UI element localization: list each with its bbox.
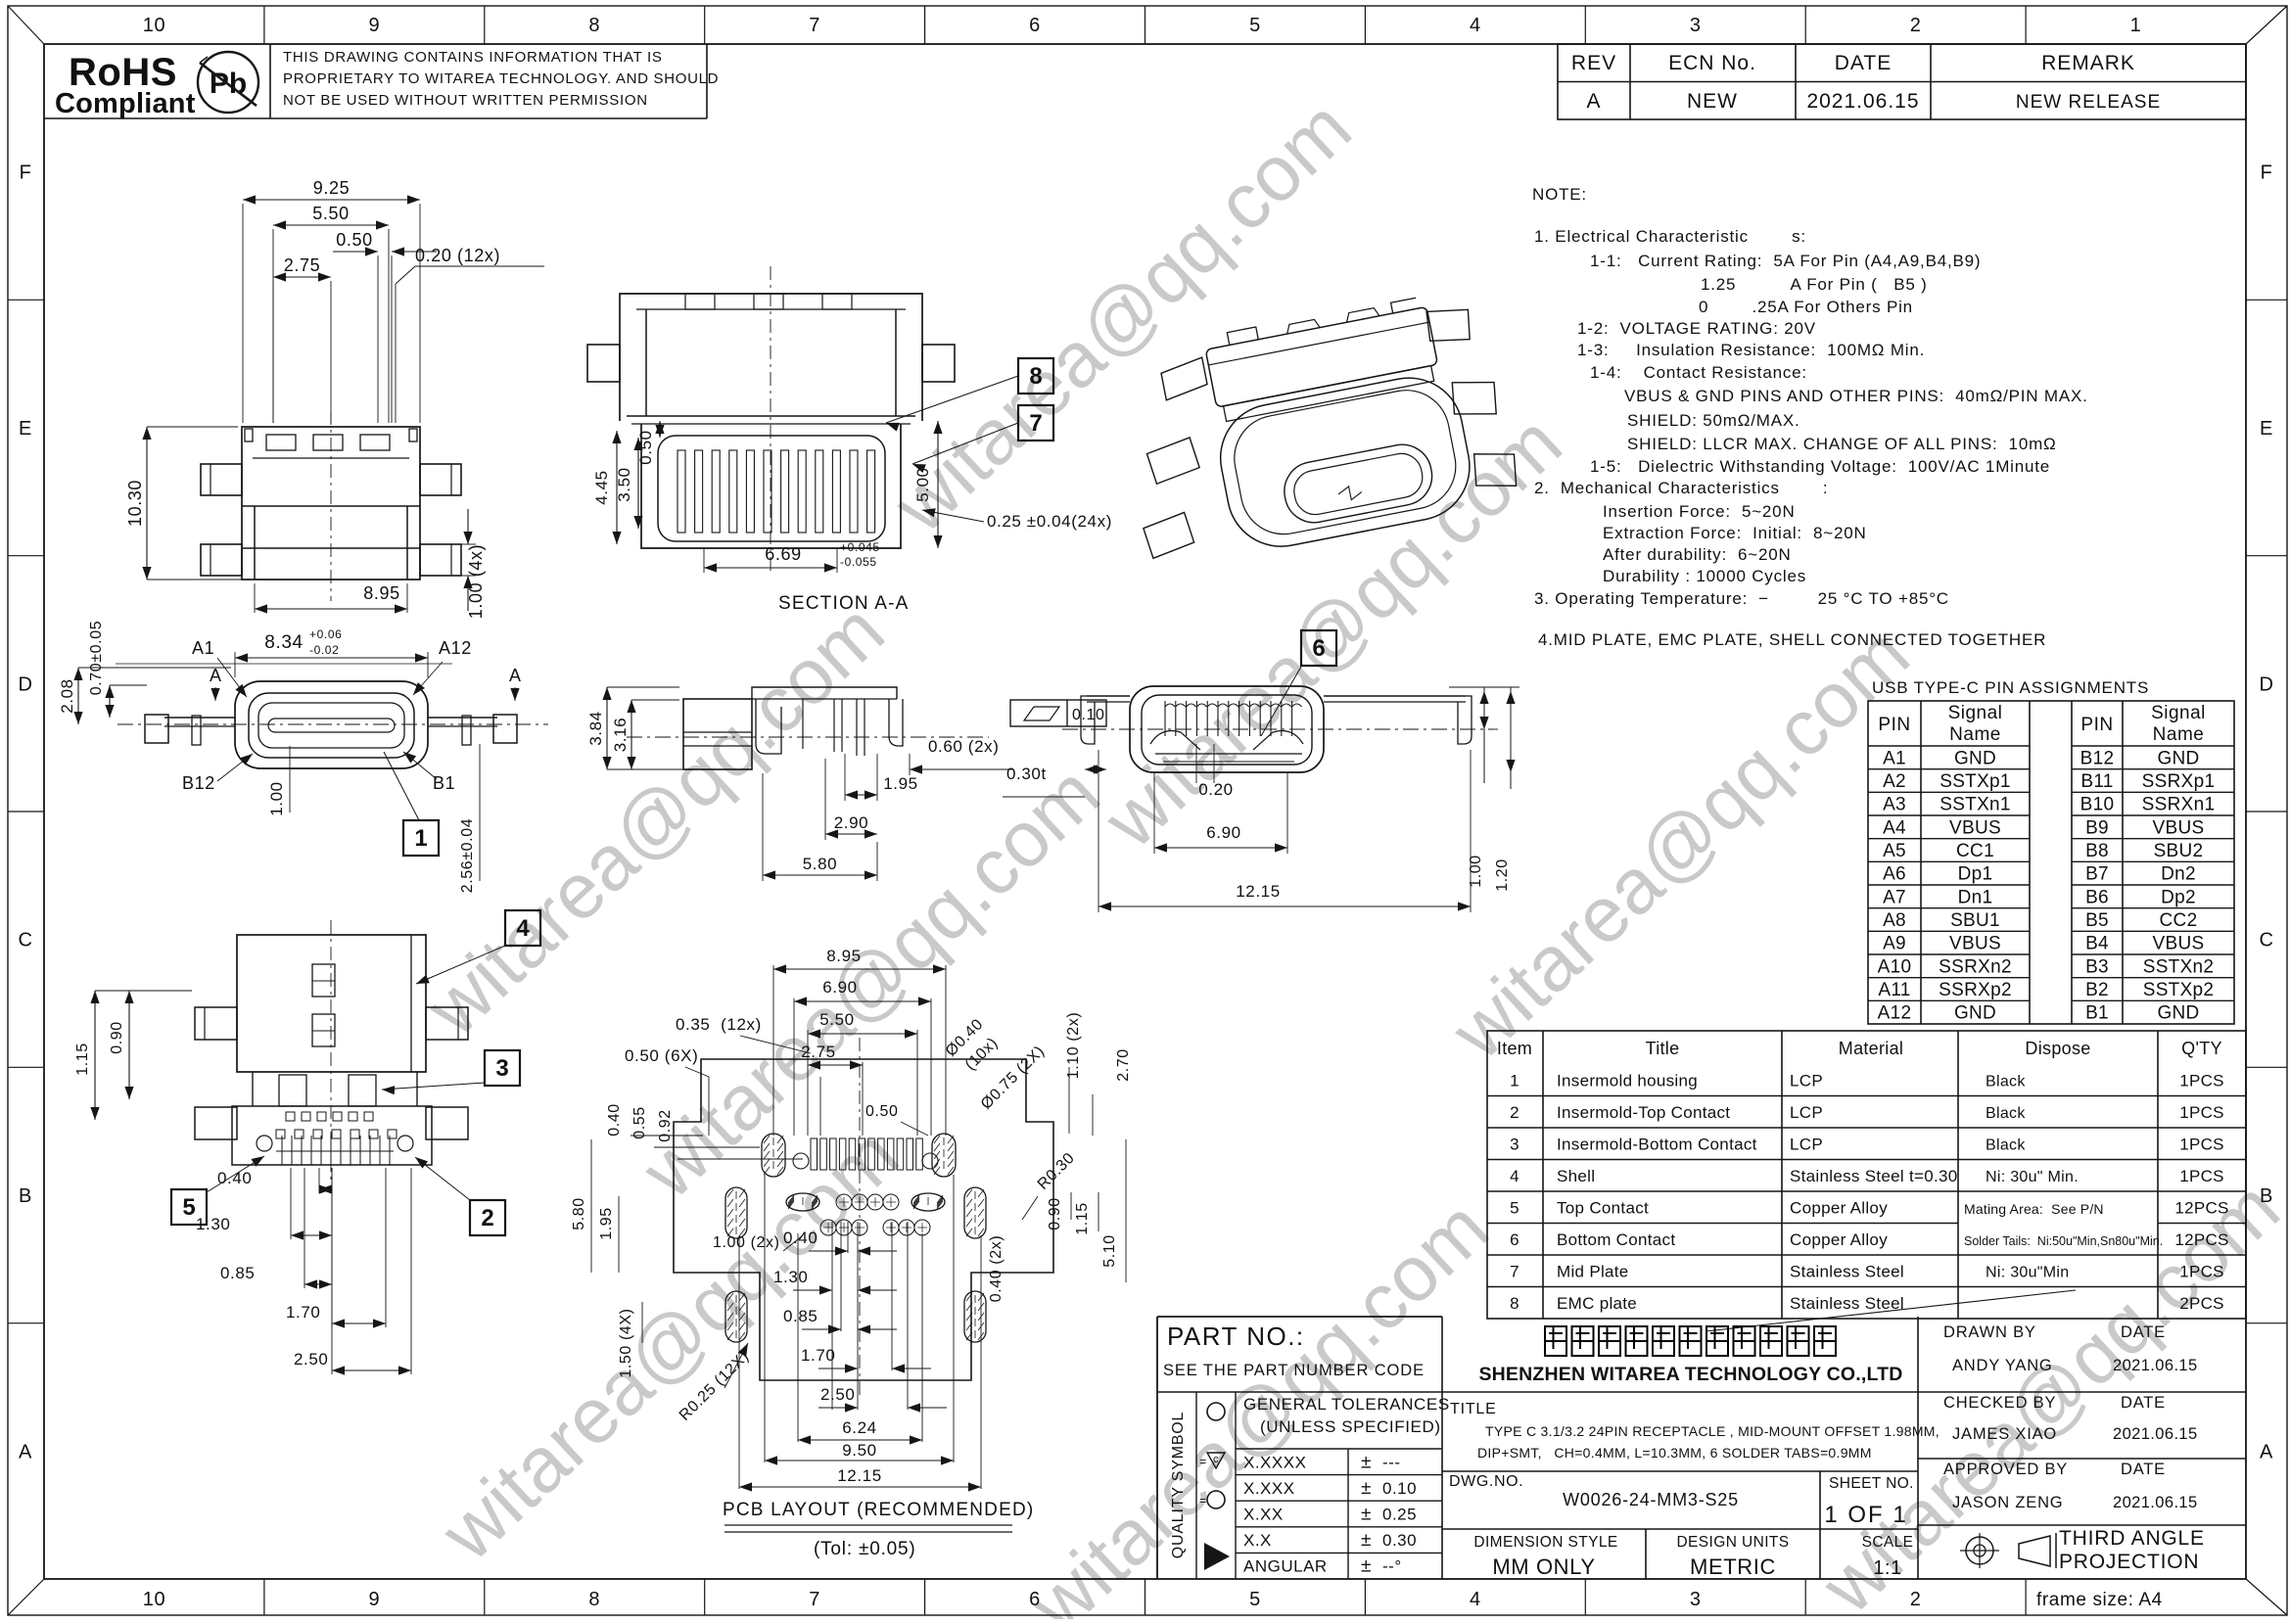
svg-text:1:1: 1:1	[1873, 1557, 1902, 1579]
svg-text:DIMENSION STYLE: DIMENSION STYLE	[1473, 1534, 1617, 1551]
pcb large oval pads	[762, 1134, 785, 1177]
svg-text:A: A	[509, 666, 522, 685]
svg-text:ECN No.: ECN No.	[1668, 52, 1756, 74]
dwg no block	[1442, 1528, 1918, 1530]
svg-text:2: 2	[481, 1205, 493, 1231]
side dim 2.90	[824, 759, 826, 840]
svg-text:0.10: 0.10	[1072, 707, 1105, 723]
svg-text:B5: B5	[2085, 910, 2109, 931]
svg-text:A5: A5	[1883, 841, 1906, 861]
svg-text:1.70: 1.70	[286, 1303, 321, 1322]
bottom view hooks	[312, 964, 335, 997]
front dim 2.56	[479, 744, 481, 881]
svg-text:4: 4	[1470, 15, 1481, 36]
svg-text:SSRXp2: SSRXp2	[1939, 980, 2012, 1000]
svg-text:SSTXp2: SSTXp2	[2143, 980, 2215, 1000]
svg-text:DATE: DATE	[1835, 52, 1892, 74]
svg-text:8.95: 8.95	[363, 583, 399, 603]
svg-text:1.70: 1.70	[801, 1346, 836, 1365]
svg-text:2. Mechanical Characteristics: 2. Mechanical Characteristics :	[1534, 479, 1828, 497]
svg-text:1.00 (2x): 1.00 (2x)	[713, 1234, 780, 1251]
svg-text:9: 9	[368, 15, 380, 36]
svg-text:D: D	[18, 673, 32, 695]
bottom small dims	[318, 1168, 320, 1193]
svg-text:1: 1	[2130, 15, 2142, 36]
svg-text:A9: A9	[1883, 934, 1906, 954]
front dim 0.70	[110, 684, 147, 686]
RoHS compliant logo block	[44, 117, 707, 119]
svg-text:B4: B4	[2085, 934, 2109, 954]
view: recommended PCB layout	[674, 1059, 1053, 1380]
svg-text:10.30: 10.30	[125, 480, 145, 527]
svg-text:0.70±0.05: 0.70±0.05	[88, 621, 105, 695]
svg-text:5: 5	[1510, 1198, 1519, 1217]
svg-text:B12: B12	[2080, 748, 2115, 768]
svg-text:REMARK: REMARK	[2041, 52, 2135, 74]
svg-text:1.20: 1.20	[1494, 858, 1511, 892]
svg-text:A: A	[1586, 90, 1601, 113]
svg-text:4.45: 4.45	[592, 470, 611, 505]
side dim 3.84	[607, 686, 679, 688]
svg-text:SBU1: SBU1	[1950, 910, 2000, 931]
pcb centerline	[859, 1038, 861, 1400]
svg-text:0.35 (12x): 0.35 (12x)	[676, 1015, 762, 1034]
svg-text:THIRD ANGLE: THIRD ANGLE	[2059, 1527, 2205, 1550]
svg-text:12.15: 12.15	[1236, 882, 1281, 901]
svg-text:A7: A7	[1883, 887, 1906, 907]
svg-text:F: F	[20, 162, 32, 184]
svg-text:1PCS: 1PCS	[2179, 1262, 2224, 1280]
svg-text:ANGULAR: ANGULAR	[1243, 1557, 1328, 1576]
back centerline	[1062, 728, 1498, 730]
svg-text:B3: B3	[2085, 956, 2109, 977]
svg-text:0.30: 0.30	[1382, 1531, 1417, 1550]
svg-text:Black: Black	[1986, 1105, 2026, 1122]
svg-text:After durability: 6~20N: After durability: 6~20N	[1603, 545, 1792, 564]
svg-text:GND: GND	[1954, 748, 1996, 768]
svg-text:8: 8	[1029, 363, 1042, 390]
svg-text:6.90: 6.90	[822, 978, 858, 997]
svg-text:1.50 (4X): 1.50 (4X)	[618, 1308, 634, 1377]
svg-text:0.25 ±0.04(24x): 0.25 ±0.04(24x)	[987, 512, 1112, 531]
svg-text:Insermold housing: Insermold housing	[1557, 1071, 1698, 1090]
svg-text:frame size: A4: frame size: A4	[2036, 1590, 2163, 1610]
svg-text:0.50: 0.50	[336, 230, 372, 250]
iso mid gap plate	[1229, 367, 1425, 405]
pcb smt pad row	[811, 1138, 818, 1170]
back dim 0.20	[1195, 744, 1197, 783]
svg-text:2021.06.15: 2021.06.15	[2113, 1425, 2198, 1443]
svg-text:=: =	[1199, 1494, 1207, 1508]
svg-text:3.84: 3.84	[586, 711, 605, 746]
svg-text:1: 1	[414, 825, 427, 852]
svg-text:6.90: 6.90	[1206, 823, 1241, 842]
svg-text:0.40: 0.40	[783, 1229, 818, 1247]
front dim 1.00 and leader	[289, 746, 291, 812]
svg-text:Name: Name	[2153, 724, 2205, 745]
svg-text:0.92: 0.92	[657, 1109, 674, 1142]
svg-text:B8: B8	[2085, 841, 2109, 861]
svg-text:4: 4	[1510, 1167, 1519, 1185]
svg-text:1.30: 1.30	[196, 1215, 231, 1233]
svg-text:6.69: 6.69	[765, 544, 801, 564]
svg-text:6: 6	[1312, 635, 1325, 662]
svg-text:2021.06.15: 2021.06.15	[2113, 1494, 2198, 1511]
svg-text:0.30t: 0.30t	[1006, 765, 1047, 783]
svg-text:1.15: 1.15	[74, 1043, 91, 1076]
svg-text:X.X: X.X	[1243, 1531, 1272, 1550]
svg-text:0.50: 0.50	[636, 430, 655, 465]
svg-text:Solder Tails: Ni:50u"Min,Sn80: Solder Tails: Ni:50u"Min,Sn80u"Min.	[1964, 1234, 2163, 1248]
view: section A-A	[620, 294, 922, 421]
svg-text:7: 7	[1029, 410, 1042, 437]
flatness tolerance callout	[1010, 700, 1106, 726]
svg-text:A12: A12	[439, 638, 472, 658]
svg-text:Stainless Steel: Stainless Steel	[1790, 1262, 1904, 1280]
svg-text:APPROVED BY: APPROVED BY	[1943, 1461, 2068, 1478]
svg-text:SECTION A-A: SECTION A-A	[778, 593, 910, 614]
svg-text:Dn2: Dn2	[2161, 864, 2196, 885]
svg-text:3: 3	[495, 1055, 508, 1082]
svg-text:ANDY YANG: ANDY YANG	[1952, 1357, 2053, 1374]
svg-text:Title: Title	[1646, 1039, 1680, 1058]
section lower shroud	[641, 424, 901, 548]
svg-text:0.85: 0.85	[783, 1307, 818, 1325]
Pb-free symbol	[198, 52, 258, 113]
svg-text:Stainless Steel: Stainless Steel	[1790, 1294, 1904, 1313]
svg-text:±: ±	[1361, 1505, 1372, 1525]
svg-text:TYPE C 3.1/3.2 24PIN RECEPTACL: TYPE C 3.1/3.2 24PIN RECEPTACLE , MID-MO…	[1485, 1423, 1939, 1439]
svg-text:Name: Name	[1949, 724, 2001, 745]
svg-text:B1: B1	[433, 773, 455, 793]
svg-text:c: c	[1213, 1454, 1219, 1465]
bottom view upper side tabs	[195, 1007, 237, 1040]
svg-text:SEE THE PART NUMBER CODE: SEE THE PART NUMBER CODE	[1163, 1362, 1425, 1379]
svg-text:0.60 (2x): 0.60 (2x)	[928, 737, 1000, 756]
svg-text:A1: A1	[1883, 748, 1906, 768]
svg-text:Q'TY: Q'TY	[2181, 1039, 2222, 1058]
svg-text:GND: GND	[2157, 748, 2199, 768]
section mid plate	[627, 415, 915, 417]
svg-text:0.10: 0.10	[1382, 1479, 1417, 1498]
svg-text:Ni: 30u" Min.: Ni: 30u" Min.	[1986, 1169, 2079, 1185]
svg-text:2.50: 2.50	[820, 1385, 856, 1404]
svg-text:B12: B12	[182, 773, 215, 793]
svg-text:Durability : 10000 Cycles: Durability : 10000 Cycles	[1603, 567, 1806, 585]
svg-text:X.XX: X.XX	[1243, 1506, 1284, 1524]
svg-text:Insermold-Bottom Contact: Insermold-Bottom Contact	[1557, 1135, 1757, 1153]
svg-text:7: 7	[809, 15, 820, 36]
svg-text:SHENZHEN WITAREA TECHNOLOGY CO: SHENZHEN WITAREA TECHNOLOGY CO.,LTD	[1478, 1364, 1902, 1385]
back pin comb	[1164, 701, 1166, 736]
svg-text:3.16: 3.16	[611, 718, 630, 753]
svg-text:4: 4	[516, 915, 530, 942]
svg-text:8: 8	[1510, 1294, 1519, 1313]
svg-text:B11: B11	[2080, 771, 2113, 792]
third angle projection symbols	[1966, 1537, 1993, 1564]
svg-text:0.25: 0.25	[1382, 1506, 1417, 1524]
svg-text:SSRXn2: SSRXn2	[1939, 956, 2012, 977]
svg-text:2: 2	[1910, 1589, 1922, 1610]
svg-text:1PCS: 1PCS	[2179, 1103, 2224, 1122]
svg-text:10: 10	[143, 15, 165, 36]
svg-text:2PCS: 2PCS	[2179, 1294, 2224, 1313]
svg-text:SSRXp1: SSRXp1	[2142, 771, 2216, 792]
svg-text:1.30: 1.30	[773, 1268, 809, 1286]
svg-text:B10: B10	[2080, 795, 2115, 815]
svg-text:DATE: DATE	[2121, 1394, 2166, 1412]
svg-text:6: 6	[1029, 1589, 1041, 1610]
svg-text:0.55: 0.55	[631, 1106, 648, 1139]
svg-text:B1: B1	[2085, 1003, 2109, 1024]
svg-text:B2: B2	[2085, 980, 2109, 1000]
iso seam mark	[1337, 485, 1363, 502]
svg-text:THIS DRAWING CONTAINS INFORMAT: THIS DRAWING CONTAINS INFORMATION THAT I…	[283, 49, 663, 66]
svg-text:2.70: 2.70	[1115, 1048, 1132, 1082]
svg-text:NEW: NEW	[1687, 90, 1738, 113]
svg-text:1PCS: 1PCS	[2179, 1167, 2224, 1185]
svg-text:TITLE: TITLE	[1450, 1401, 1497, 1417]
svg-text:E: E	[19, 418, 32, 440]
svg-text:--°: --°	[1382, 1557, 1402, 1576]
svg-text:A2: A2	[1883, 771, 1906, 792]
side dim 5.80	[762, 773, 764, 881]
section dim 6.69	[703, 548, 705, 573]
svg-text:1-3: Insulation Resistance: 1-3: Insulation Resistance: 100MΩ Min.	[1577, 341, 1925, 359]
svg-text:A: A	[2260, 1441, 2273, 1462]
svg-text:1-5: Dielectric Withstanding: 1-5: Dielectric Withstanding Voltage: 10…	[1590, 457, 2050, 476]
tag 8	[1018, 358, 1053, 394]
svg-text:12PCS: 12PCS	[2174, 1198, 2228, 1217]
svg-text:PIN: PIN	[1878, 715, 1910, 735]
tag 7	[1018, 405, 1053, 441]
tag 6	[1301, 630, 1336, 666]
pcb dim extension lines	[831, 1222, 833, 1410]
svg-text:PART NO.:: PART NO.:	[1167, 1322, 1305, 1351]
tags 4 3 2 5	[505, 910, 540, 946]
bottom view middle section	[252, 1072, 254, 1106]
side view tongue & legs	[756, 699, 781, 754]
svg-text:REV: REV	[1571, 52, 1616, 74]
svg-text:±: ±	[1361, 1452, 1372, 1472]
svg-text:2.75: 2.75	[284, 255, 320, 275]
svg-text:A11: A11	[1878, 980, 1910, 1000]
bill of materials table	[1487, 1031, 2246, 1319]
svg-text:1. Electrical Characteristic: 1. Electrical Characteristic s:	[1534, 227, 1806, 246]
svg-text:1.10 (2x): 1.10 (2x)	[1065, 1012, 1082, 1080]
svg-text:+0.06: +0.06	[309, 627, 342, 641]
svg-text:12.15: 12.15	[837, 1466, 882, 1485]
section centerline	[770, 266, 771, 573]
svg-text:1 OF 1: 1 OF 1	[1824, 1502, 1907, 1528]
front tag 1	[403, 820, 439, 856]
svg-text:Dispose: Dispose	[2025, 1039, 2090, 1058]
svg-text:1.95: 1.95	[883, 774, 918, 793]
view: side view	[683, 699, 752, 769]
svg-text:Dp1: Dp1	[1958, 864, 1993, 885]
svg-text:1PCS: 1PCS	[2179, 1135, 2224, 1153]
bottom contact area	[232, 1106, 432, 1165]
svg-text:=: =	[1199, 1455, 1207, 1468]
svg-text:PROJECTION: PROJECTION	[2059, 1551, 2199, 1573]
svg-text:6.24: 6.24	[842, 1418, 877, 1437]
svg-text:0.40: 0.40	[217, 1169, 253, 1187]
svg-text:1.15: 1.15	[1074, 1202, 1091, 1235]
svg-text:3: 3	[1690, 1589, 1702, 1610]
svg-text:A: A	[210, 666, 222, 685]
svg-text:3: 3	[1690, 15, 1702, 36]
section pin comb	[678, 450, 685, 533]
svg-text:5.50: 5.50	[312, 204, 349, 223]
svg-text:3.50: 3.50	[615, 467, 633, 502]
svg-text:0.40 (2x): 0.40 (2x)	[988, 1235, 1005, 1303]
svg-text:8: 8	[588, 15, 600, 36]
svg-text:2021.06.15: 2021.06.15	[1806, 90, 1919, 113]
section dims left	[616, 431, 618, 544]
svg-text:1.00: 1.00	[267, 781, 286, 816]
svg-text:4: 4	[1470, 1589, 1481, 1610]
svg-text:B: B	[2260, 1185, 2273, 1207]
svg-text:(UNLESS SPECIFIED): (UNLESS SPECIFIED)	[1260, 1417, 1441, 1436]
svg-text:1: 1	[1510, 1071, 1519, 1090]
svg-text:SHIELD: LLCR MAX. CHANGE OF AL: SHIELD: LLCR MAX. CHANGE OF ALL PINS: 10…	[1627, 435, 2057, 453]
svg-text:DATE: DATE	[2121, 1461, 2166, 1478]
svg-text:A: A	[19, 1441, 32, 1462]
svg-text:DRAWN BY: DRAWN BY	[1943, 1323, 2036, 1341]
svg-text:Item: Item	[1497, 1039, 1532, 1058]
svg-text:EMC plate: EMC plate	[1557, 1294, 1637, 1313]
svg-text:SBU2: SBU2	[2154, 841, 2204, 861]
front dim 2.08	[78, 667, 231, 669]
svg-text:LCP: LCP	[1790, 1103, 1823, 1122]
svg-text:1.25 A For Pin ( B5: 1.25 A For Pin ( B5 )	[1701, 275, 1928, 294]
front view side wings	[164, 717, 235, 719]
svg-text:A1: A1	[192, 638, 214, 658]
svg-text:8: 8	[588, 1589, 600, 1610]
svg-text:DESIGN UNITS: DESIGN UNITS	[1676, 1534, 1789, 1551]
svg-text:DWG.NO.: DWG.NO.	[1449, 1473, 1523, 1490]
svg-text:2.50: 2.50	[294, 1350, 329, 1369]
svg-text:Dp2: Dp2	[2161, 887, 2196, 907]
svg-text:Black: Black	[1986, 1073, 2026, 1090]
svg-text:-0.02: -0.02	[309, 643, 339, 657]
dim 5.50	[272, 229, 274, 423]
svg-text:Top Contact: Top Contact	[1557, 1198, 1649, 1217]
svg-text:DATE: DATE	[2121, 1323, 2166, 1341]
svg-text:0.50: 0.50	[865, 1103, 899, 1120]
svg-text:0 .25A For Others Pin: 0 .25A For Others Pin	[1699, 298, 1913, 316]
svg-text:-0.055: -0.055	[840, 555, 877, 569]
svg-text:C: C	[18, 930, 32, 951]
svg-text:Material: Material	[1839, 1039, 1903, 1058]
svg-text:8.95: 8.95	[826, 947, 862, 965]
svg-text:SHEET NO.: SHEET NO.	[1829, 1475, 1914, 1492]
svg-text:2021.06.15: 2021.06.15	[2113, 1357, 2198, 1374]
back dim 12.15	[1098, 750, 1099, 912]
iso latch tabs left	[1159, 357, 1208, 400]
svg-text:0.90: 0.90	[109, 1021, 125, 1054]
svg-text:E: E	[2260, 418, 2273, 440]
svg-text:1.00 (4x): 1.00 (4x)	[466, 544, 486, 619]
svg-text:SSTXp1: SSTXp1	[1939, 771, 2011, 792]
svg-text:CC2: CC2	[2160, 910, 2198, 931]
svg-text:NOTE:: NOTE:	[1532, 185, 1587, 204]
svg-text:Shell: Shell	[1557, 1167, 1595, 1185]
svg-text:1-4: Contact Resistance:: 1-4: Contact Resistance:	[1590, 363, 1807, 382]
svg-text:7: 7	[1510, 1262, 1519, 1280]
svg-text:12PCS: 12PCS	[2174, 1230, 2228, 1249]
dimension style cells	[1645, 1529, 1647, 1579]
svg-text:±: ±	[1361, 1478, 1372, 1499]
svg-text:A3: A3	[1883, 795, 1906, 815]
svg-text:Bottom Contact: Bottom Contact	[1557, 1230, 1675, 1249]
svg-text:JAMES XIAO: JAMES XIAO	[1952, 1425, 2057, 1443]
svg-text:MM ONLY: MM ONLY	[1492, 1554, 1595, 1579]
svg-text:9.50: 9.50	[842, 1441, 877, 1460]
svg-text:3: 3	[1510, 1135, 1519, 1153]
svg-text:1.00: 1.00	[1468, 855, 1484, 888]
svg-text:A4: A4	[1883, 817, 1906, 838]
iso latch tabs right	[1425, 303, 1473, 347]
view1 centerline	[330, 411, 332, 601]
svg-text:0.85: 0.85	[220, 1264, 256, 1282]
svg-text:0.20 (12x): 0.20 (12x)	[415, 246, 500, 265]
svg-text:VBUS: VBUS	[1949, 817, 2001, 838]
view: front (mating face) view	[235, 681, 428, 768]
view1 side solder tabs	[201, 464, 242, 495]
company name block	[1917, 1317, 1919, 1579]
svg-text:6: 6	[1510, 1230, 1519, 1249]
dim 2.75	[272, 281, 274, 423]
svg-text:±: ±	[1361, 1556, 1372, 1577]
svg-text:B6: B6	[2085, 887, 2109, 907]
svg-text:CC1: CC1	[1956, 841, 1994, 861]
svg-text:B: B	[19, 1185, 32, 1207]
svg-text:A10: A10	[1878, 956, 1912, 977]
dim 1.00 (4x)	[461, 543, 476, 545]
svg-text:2.08: 2.08	[58, 678, 76, 714]
svg-text:1-2: VOLTAGE RATING: 20V: 1-2: VOLTAGE RATING: 20V	[1577, 319, 1816, 338]
svg-text:+0.045: +0.045	[840, 540, 880, 554]
bottom dims left	[129, 990, 192, 992]
svg-text:Compliant: Compliant	[55, 88, 196, 119]
svg-text:---: ---	[1382, 1453, 1400, 1471]
BOM row8 diagonal strike line	[1706, 1290, 2076, 1331]
svg-text:B7: B7	[2085, 864, 2109, 885]
svg-text:5.50: 5.50	[819, 1010, 855, 1029]
svg-text:A6: A6	[1883, 864, 1906, 885]
svg-text:1-1: Current Rating: 5A For: 1-1: Current Rating: 5A For Pin (A4,A9,B…	[1590, 252, 1981, 270]
svg-text:6: 6	[1029, 15, 1041, 36]
iso front rim	[1280, 440, 1437, 528]
side view top arm	[752, 687, 897, 699]
svg-text:Dn1: Dn1	[1958, 887, 1993, 907]
title block	[1156, 1317, 1158, 1579]
svg-text:10: 10	[143, 1589, 165, 1610]
back dims 1.00 1.20	[1483, 687, 1485, 783]
svg-text:LCP: LCP	[1790, 1135, 1823, 1153]
view: bottom view	[237, 935, 426, 1072]
dim 10.30	[147, 426, 238, 428]
svg-text:0.40: 0.40	[606, 1103, 623, 1137]
svg-text:5.80: 5.80	[803, 855, 838, 873]
front view centerlines	[117, 723, 548, 725]
svg-text:Insertion Force: 5~20N: Insertion Force: 5~20N	[1603, 502, 1796, 521]
view: isometric 3D connector	[1110, 283, 1523, 573]
svg-text:GENERAL TOLERANCES: GENERAL TOLERANCES	[1243, 1395, 1450, 1414]
svg-text:C: C	[2259, 930, 2273, 951]
bottom centerline	[330, 920, 332, 1180]
